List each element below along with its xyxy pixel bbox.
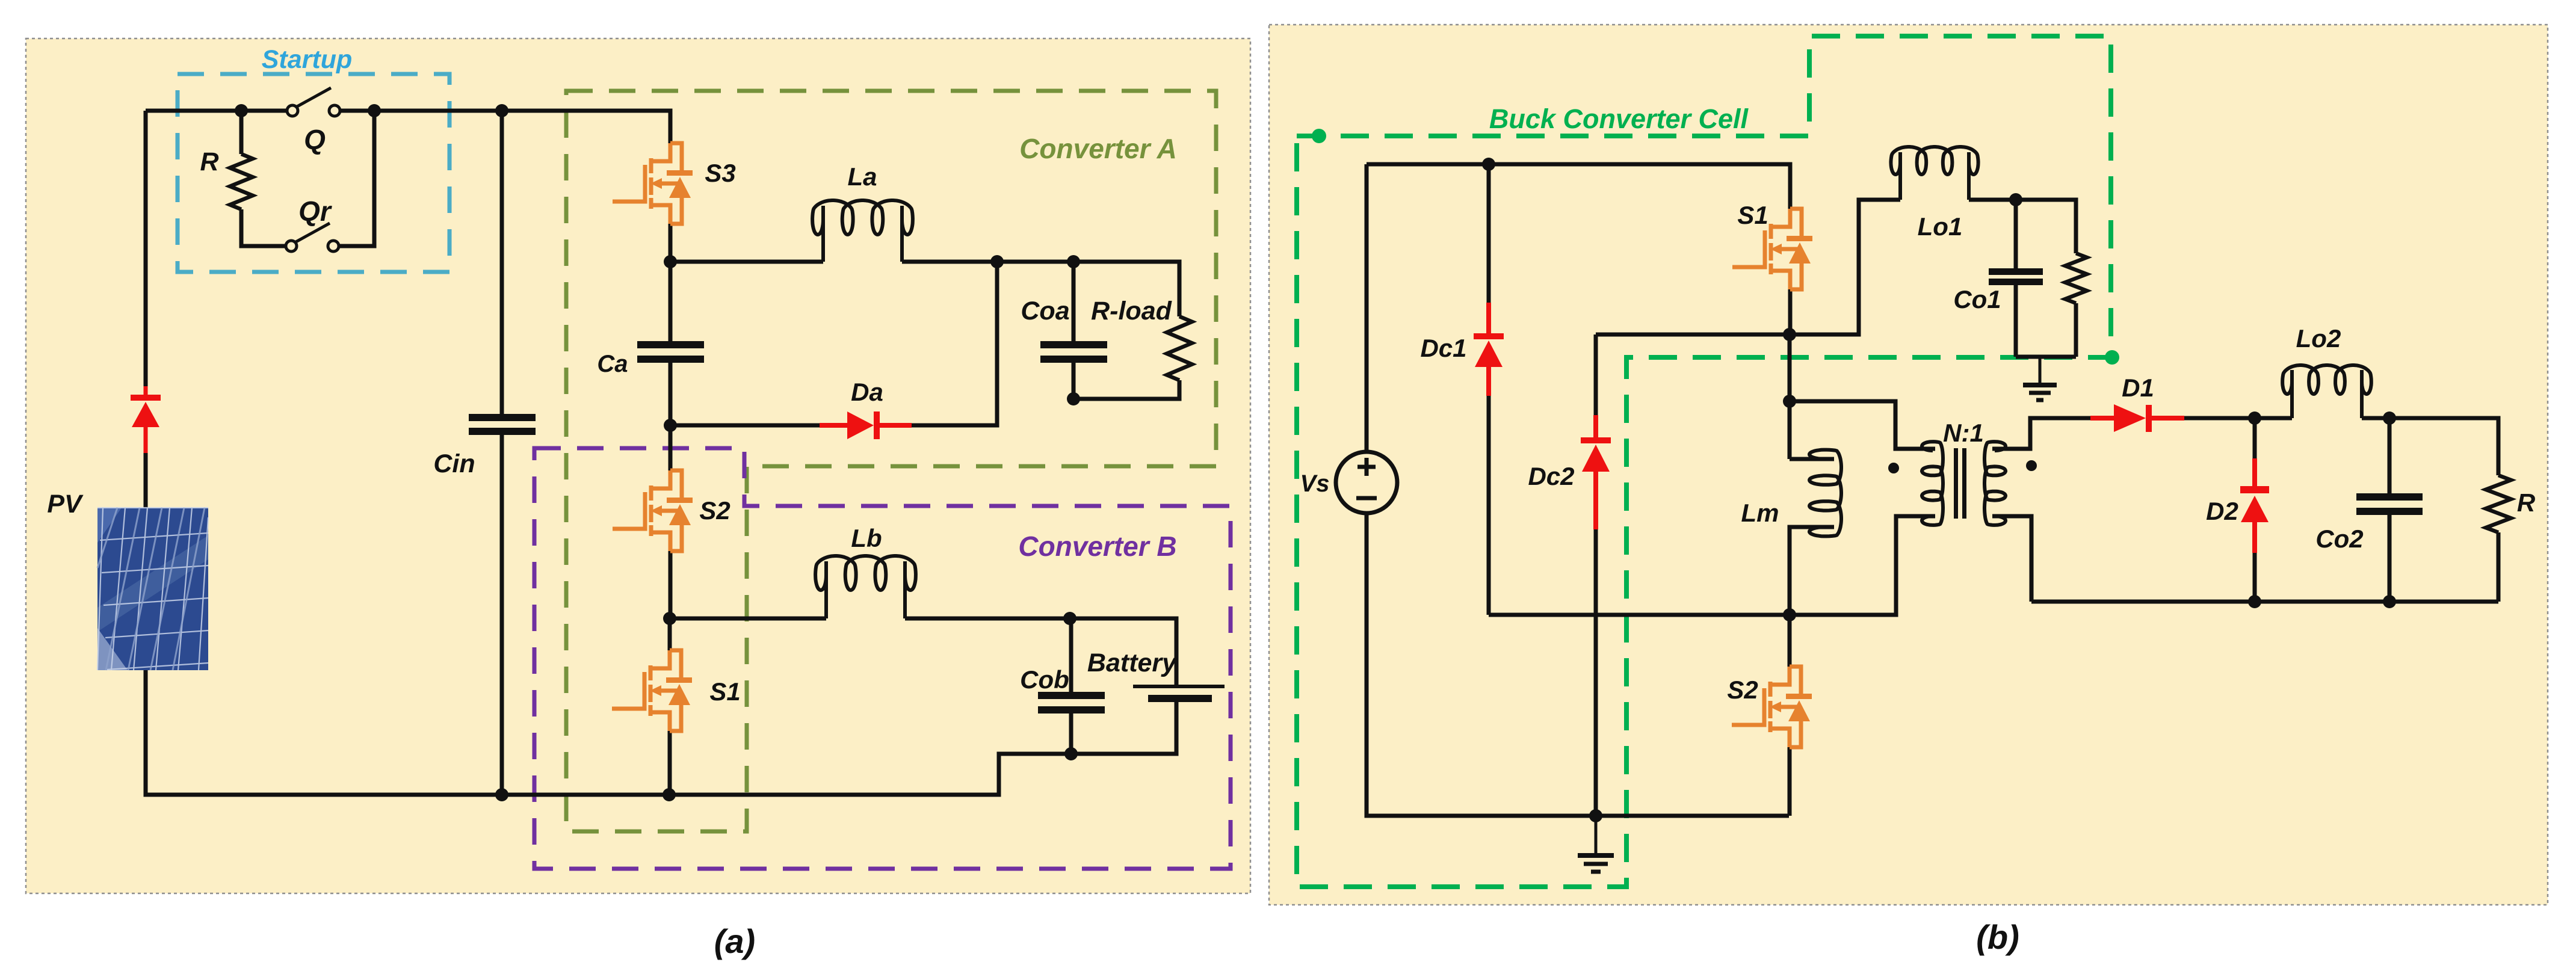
svg-text:Converter A: Converter A [1019,133,1177,164]
svg-text:Coa: Coa [1021,297,1069,325]
wire S2b drain [1788,615,1792,667]
inductor Lo1 [1891,147,1978,200]
svg-text:S1: S1 [1737,201,1768,229]
battery [1133,685,1225,702]
ground Co1 [2023,357,2057,400]
wire Vs bottom to ground bus [1367,513,1789,816]
transistor S1b [1732,209,1812,289]
svg-text:Co1: Co1 [1953,285,2001,313]
wire Co1 branch [2014,200,2018,357]
capacitor Coa [1040,341,1107,363]
svg-text:Lo2: Lo2 [2296,324,2341,353]
diode D2 [2240,458,2269,553]
svg-text:Lo1: Lo1 [1918,212,1963,241]
wire node to Lo1 riser [1790,200,1900,334]
wire Ca branch [669,262,673,425]
wire S1a drain [668,618,672,650]
transistor S3 [613,143,693,224]
svg-text:Dc1: Dc1 [1420,334,1466,362]
svg-text:S3: S3 [705,159,735,187]
wire converter A mid bus [670,262,1179,399]
node B junction dots [1482,158,2396,822]
wire Vs top lead [1365,164,1369,452]
switch Q [287,88,340,116]
svg-text:Cob: Cob [1020,665,1069,694]
Buck Converter Cell dashed box [1297,36,2111,887]
capacitor Co2 [2356,493,2423,515]
svg-text:Ca: Ca [597,351,628,377]
svg-text:Buck Converter Cell: Buck Converter Cell [1489,103,1749,134]
capacitor Cob [1038,692,1105,713]
svg-text:PV: PV [47,490,84,519]
diode D1 [2090,404,2184,432]
svg-text:Q: Q [304,124,326,155]
svg-text:Startup: Startup [262,45,353,74]
panel (a) background [26,39,1250,893]
svg-text:Lm: Lm [1741,499,1779,527]
inductor Lb [815,556,916,618]
svg-text:S2: S2 [1727,676,1758,704]
resistor R b [2486,475,2511,532]
wire S2 drain [669,425,673,470]
wire Coa branch [1072,262,1076,399]
wire S2 source to mid node [669,551,673,618]
switch Qr [286,223,339,251]
wire Lm top lead [1790,457,1834,461]
diode PV series [131,386,161,453]
transformer phase dot secondary [2026,460,2037,471]
wire left (PV branch) [144,111,148,386]
inductor Lo2 [2282,365,2371,418]
wire D1 to node [2184,416,2255,421]
startup dashed box [178,74,449,272]
wire Dc2 branch [1594,334,1598,816]
wire node A down to node B and Lm [1788,334,1792,459]
wire Cob branch [1069,618,1073,754]
transistor S1a [612,650,692,731]
svg-text:D1: D1 [2122,374,2154,402]
wire Dc1 branch [1487,164,1491,615]
svg-text:Lb: Lb [851,524,882,552]
capacitor Co1 [1989,268,2043,285]
wire startup R branch [241,111,374,246]
svg-text:D2: D2 [2206,497,2238,525]
green corner dot 1 [1312,129,1326,143]
inductor Lm [1809,450,1841,537]
svg-text:(a): (a) [714,922,755,960]
svg-text:(b): (b) [1976,918,2019,956]
green corner dot 2 [2105,350,2119,365]
wire PV to bottom bus [146,453,1176,795]
wire S3 source to node [669,224,673,262]
Converter A dashed box [566,91,1216,831]
voltage source Vs [1336,452,1397,513]
resistor R-load [1167,316,1192,380]
svg-text:R: R [200,147,218,176]
inductor La [812,200,913,262]
transistor S2b [1732,667,1812,747]
wire battery bottom lead [1175,702,1179,754]
wire Da row [670,262,997,425]
transistor S2a [613,470,693,551]
diode Dc2 [1581,415,1611,529]
resistor R co1 [2065,253,2087,303]
wire primary bottom lead [1489,516,1935,615]
transformer primary winding [1922,442,1943,525]
wire Lo1 to Rco1 [1969,200,2076,253]
svg-text:Co2: Co2 [2315,525,2363,553]
transformer secondary winding [1985,442,2006,525]
wire Cin branch [500,111,504,795]
wire Rco1 bottom lead [2074,303,2078,357]
Converter B dashed box [534,448,1231,869]
wire b output bottom bus [2031,600,2498,604]
svg-text:R: R [2517,488,2536,517]
svg-text:Qr: Qr [298,196,332,227]
wire Dc2 top link [1596,333,1790,337]
wire secondary top to D1 [1992,418,2090,449]
wire S2b source [1788,747,1792,816]
PV panel image [97,508,208,670]
wire converter B mid bus [670,618,1176,685]
svg-text:N:1: N:1 [1943,419,1984,447]
wire Co2 branch [2388,418,2392,602]
svg-text:R-load: R-load [1091,297,1172,325]
svg-text:Cin: Cin [433,449,475,478]
capacitor Ca [637,341,704,363]
svg-text:Battery: Battery [1087,649,1178,677]
svg-text:Vs: Vs [1300,470,1330,497]
svg-text:S1: S1 [709,677,740,706]
transformer phase dot primary [1888,463,1899,473]
diode Da [820,411,912,439]
resistor R startup [230,154,253,209]
wire S1a source to bottom bus [668,731,672,795]
svg-text:S2: S2 [699,496,730,525]
wire Lo2 row [2255,418,2498,475]
svg-text:Da: Da [851,378,883,406]
wire top bus [146,111,670,143]
wire Rb bottom lead [2497,532,2501,602]
ground main [1578,816,1614,872]
transformer core [1954,448,1966,519]
wire S1b source to node [1788,289,1793,334]
capacitor Cin [469,414,536,435]
diode Dc1 [1474,303,1504,396]
svg-text:La: La [847,162,877,191]
wire D2 branch [2253,418,2257,602]
svg-text:Converter B: Converter B [1018,531,1176,562]
wire Lm bottom lead [1790,527,1834,615]
wire Co1 bottom link [2016,355,2076,359]
wire b top bus [1367,164,1790,209]
wire node B to transformer primary top [1790,401,1935,449]
wire secondary bottom lead [1992,516,2031,602]
svg-text:Dc2: Dc2 [1528,462,1574,490]
panel (b) background [1269,25,2548,905]
node A junction dots [235,104,1080,801]
